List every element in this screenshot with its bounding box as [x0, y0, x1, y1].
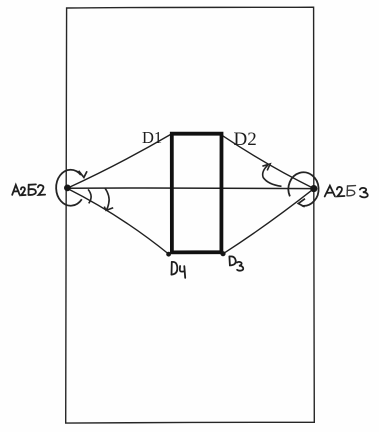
rotation loop around left point: [56, 170, 82, 206]
arrowhead of left loop: [79, 171, 87, 178]
wire: diagonal from left point to D4 corner: [67, 188, 168, 254]
wire: diagonal from left point to D1 corner: [67, 135, 170, 189]
label D4 (handwritten): [172, 262, 186, 278]
node: left point A2B2: [64, 185, 71, 192]
label A2B3 (right, handwritten cyrillic): [325, 186, 368, 198]
angle arc with arrow (right): [263, 165, 282, 186]
label D3 (handwritten): [229, 256, 243, 270]
node: right point A2B3: [310, 185, 317, 192]
angle arc small (left, between axis and lower diagonal): [88, 189, 91, 203]
arrowhead of right loop: [298, 199, 305, 207]
arrowhead of right angle arc: [262, 164, 270, 171]
arrowhead of left angle arc: [104, 207, 113, 211]
node: D3 corner dot: [220, 251, 225, 256]
rotation loop around right point: [288, 172, 318, 206]
outer frame: [66, 7, 315, 423]
svg-text:D2: D2: [234, 129, 257, 150]
axis line A2B2-A2B3: [67, 187, 314, 190]
angle arc with arrow (left): [105, 188, 109, 210]
svg-text:D1: D1: [142, 128, 162, 147]
wire: diagonal from right point to D2 corner: [222, 135, 314, 188]
label A2B2 (left, handwritten cyrillic): [12, 184, 45, 195]
rectangle D1 D2 D3 D4: [172, 134, 222, 253]
wire: diagonal from right point to D3 corner: [223, 189, 314, 254]
node: D4 corner dot: [166, 252, 171, 257]
